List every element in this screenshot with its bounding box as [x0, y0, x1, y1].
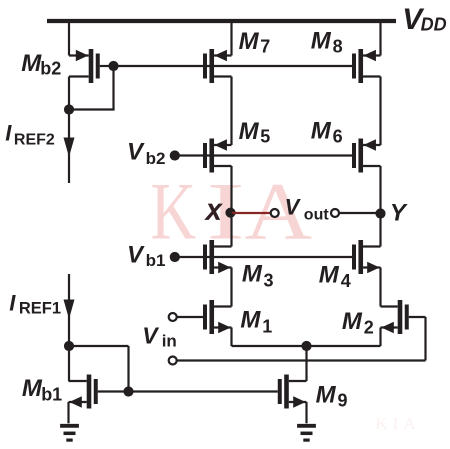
label Vout	[285, 195, 330, 224]
ground	[60, 426, 79, 440]
transistor M5	[203, 139, 232, 173]
svg-text:M: M	[242, 261, 263, 288]
current source IREF1	[64, 274, 75, 346]
label Y	[390, 200, 408, 227]
wire	[232, 212, 271, 214]
terminal	[271, 209, 279, 217]
transistor M9	[278, 375, 307, 409]
node	[64, 104, 74, 114]
label M6	[311, 118, 343, 147]
label M2	[342, 308, 374, 338]
wire	[379, 268, 381, 307]
label IREF2	[5, 120, 55, 148]
wire	[379, 213, 381, 247]
wire	[230, 166, 232, 213]
wire	[68, 21, 70, 56]
wire	[409, 316, 426, 318]
label Vb1	[127, 241, 165, 270]
node Vb1	[170, 252, 180, 262]
transistor M4	[352, 240, 381, 274]
svg-text:6: 6	[333, 126, 343, 146]
transistor Mb1	[69, 375, 98, 409]
svg-text:KIA: KIA	[375, 414, 420, 433]
wire	[67, 402, 69, 423]
svg-text:in: in	[162, 331, 177, 350]
wire	[230, 21, 232, 56]
svg-text:3: 3	[264, 270, 274, 290]
transistor M1	[203, 300, 232, 334]
svg-text:I: I	[9, 290, 16, 315]
label M8	[311, 28, 343, 57]
svg-text:V: V	[127, 139, 145, 166]
transistor M6	[352, 139, 381, 173]
wire	[175, 256, 352, 258]
svg-text:M: M	[239, 28, 260, 55]
svg-text:V: V	[127, 241, 145, 268]
wire	[379, 21, 381, 56]
svg-text:M: M	[316, 382, 337, 409]
wire	[379, 328, 381, 347]
wire	[379, 166, 381, 213]
wire	[177, 359, 426, 361]
decorative watermark	[151, 165, 421, 433]
wire	[69, 345, 129, 347]
svg-text:V: V	[142, 322, 159, 348]
node Y	[375, 208, 385, 218]
transistor M3	[203, 240, 232, 274]
VDD power rail	[47, 19, 396, 23]
svg-text:M: M	[311, 118, 332, 145]
svg-text:8: 8	[333, 36, 343, 56]
svg-text:X: X	[204, 200, 223, 225]
svg-text:REF1: REF1	[19, 299, 61, 317]
wire	[305, 402, 307, 423]
transistor M2	[381, 300, 409, 334]
svg-text:M: M	[21, 50, 42, 77]
svg-text:Y: Y	[390, 200, 408, 227]
label M7	[239, 28, 271, 57]
label IREF1	[9, 290, 61, 317]
terminal Vin-	[169, 357, 177, 365]
label M5	[239, 118, 271, 147]
svg-text:M: M	[319, 261, 340, 288]
svg-text:b1: b1	[146, 251, 166, 270]
node X	[225, 208, 235, 218]
wire	[230, 268, 232, 307]
svg-text:M: M	[342, 308, 363, 335]
wire	[232, 345, 381, 347]
wire	[112, 66, 114, 110]
label M4	[319, 261, 351, 291]
wire	[100, 65, 114, 67]
svg-text:4: 4	[341, 271, 351, 291]
node	[123, 386, 133, 396]
svg-text:V: V	[285, 195, 302, 220]
node	[64, 341, 74, 351]
svg-text:M: M	[22, 375, 43, 402]
label Vb2	[127, 139, 165, 168]
label Vin	[142, 322, 177, 350]
wire	[339, 212, 381, 214]
wire	[68, 77, 70, 110]
svg-text:I: I	[5, 120, 12, 145]
svg-text:DD: DD	[421, 14, 447, 34]
terminal Vin+	[169, 313, 177, 321]
svg-text:M: M	[239, 118, 260, 145]
wire	[424, 317, 426, 361]
wire	[69, 108, 115, 110]
svg-text:b2: b2	[146, 149, 166, 168]
svg-text:REF2: REF2	[14, 131, 55, 148]
ground	[297, 426, 316, 440]
wire	[230, 213, 232, 247]
svg-text:b1: b1	[41, 384, 62, 404]
label Mb1	[22, 375, 62, 404]
wire	[175, 154, 352, 156]
svg-text:K: K	[151, 166, 197, 257]
wire	[230, 77, 232, 146]
wire	[98, 390, 278, 392]
transistor M7	[203, 49, 232, 83]
label M3	[242, 261, 274, 291]
node tail	[301, 341, 311, 351]
wire	[379, 77, 381, 146]
node Vb2	[170, 150, 180, 160]
wire	[127, 346, 129, 392]
label X	[204, 200, 223, 225]
svg-text:1: 1	[262, 316, 272, 336]
label Mb2	[21, 50, 61, 79]
wire	[114, 65, 353, 67]
transistor Mb2	[69, 49, 100, 83]
label M1	[240, 307, 272, 337]
svg-text:M: M	[240, 307, 261, 334]
svg-text:M: M	[311, 28, 332, 55]
wire	[177, 316, 203, 318]
transistor M8	[352, 49, 381, 83]
wire	[68, 346, 70, 381]
svg-text:9: 9	[338, 391, 348, 411]
wire	[230, 328, 232, 347]
svg-text:out: out	[304, 207, 330, 224]
svg-text:7: 7	[260, 37, 270, 57]
label VDD	[402, 3, 446, 36]
svg-text:b2: b2	[40, 59, 61, 79]
wire	[305, 346, 307, 381]
svg-text:5: 5	[260, 127, 270, 147]
node	[108, 61, 118, 71]
label M9	[316, 382, 348, 411]
current source IREF2	[64, 110, 75, 184]
terminal	[331, 209, 339, 217]
svg-text:2: 2	[364, 318, 374, 338]
